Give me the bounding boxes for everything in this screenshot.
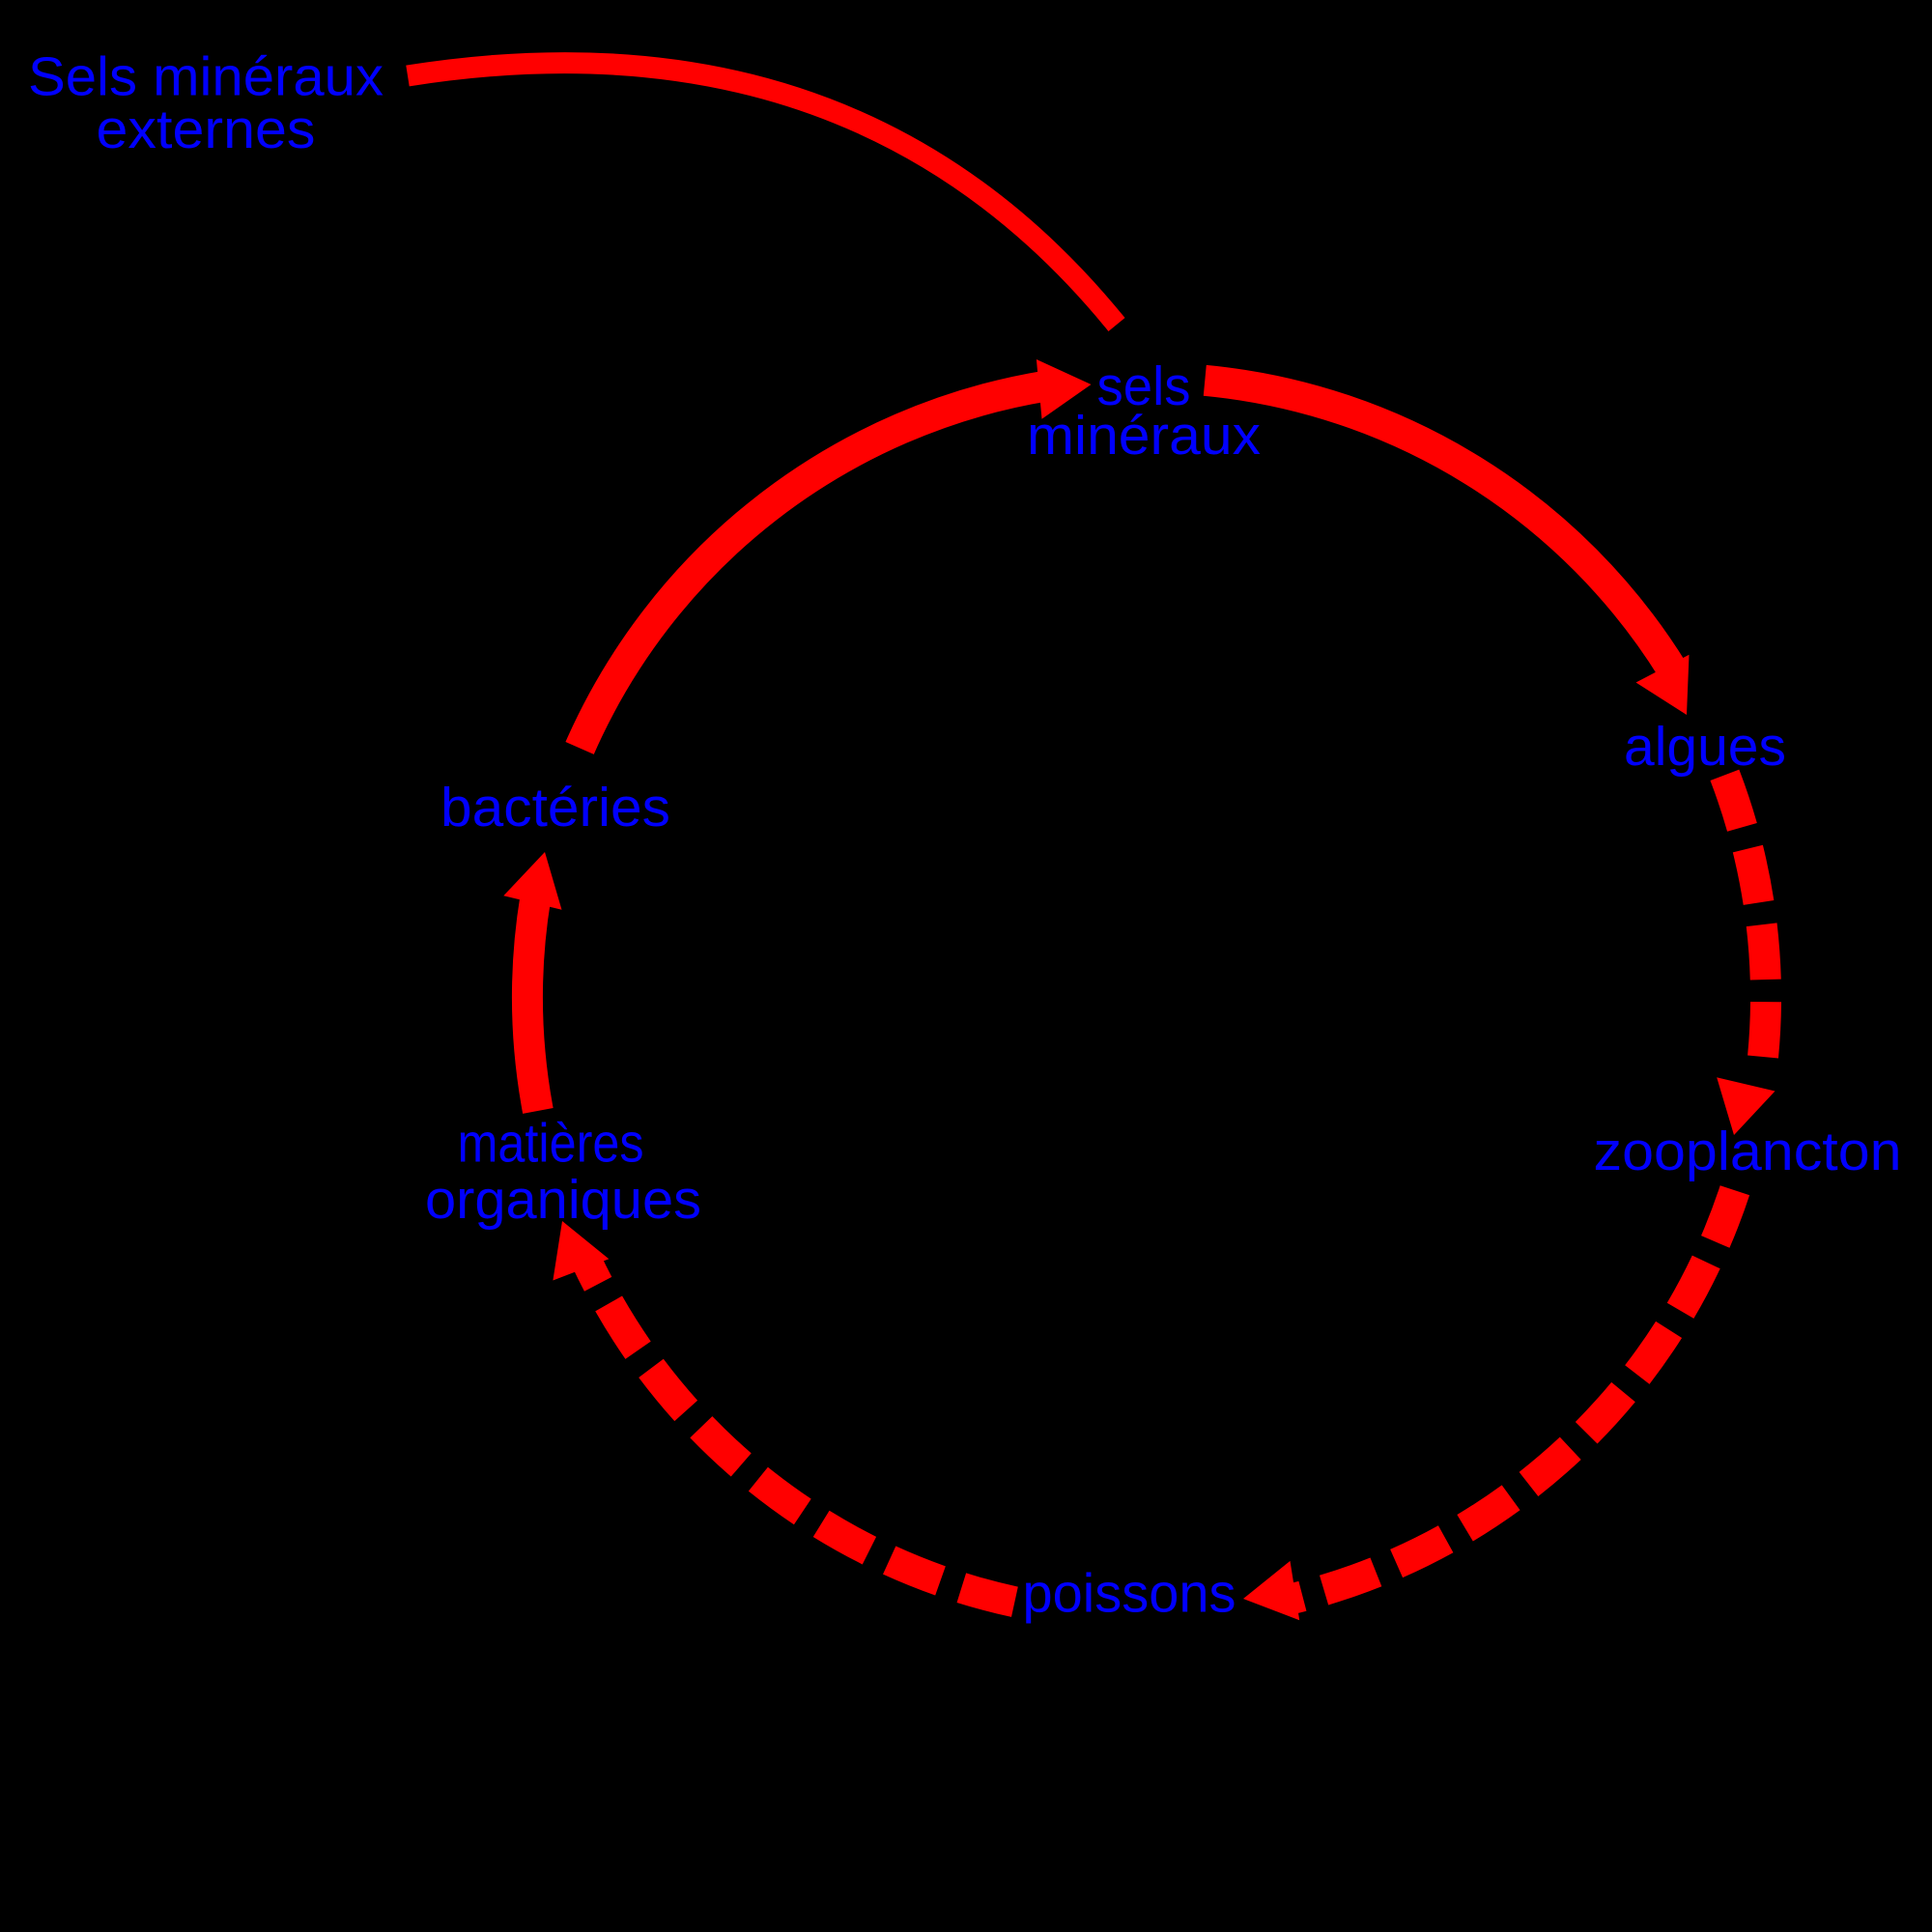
svg-text:bactéries: bactéries	[440, 777, 670, 838]
svg-text:minéraux: minéraux	[1027, 405, 1261, 467]
svg-text:externes: externes	[97, 99, 316, 160]
svg-text:algues: algues	[1624, 716, 1786, 778]
svg-text:organiques: organiques	[425, 1169, 701, 1231]
svg-text:poissons: poissons	[1023, 1563, 1236, 1625]
svg-text:zooplancton: zooplancton	[1594, 1121, 1902, 1182]
svg-text:matières: matières	[458, 1113, 644, 1175]
